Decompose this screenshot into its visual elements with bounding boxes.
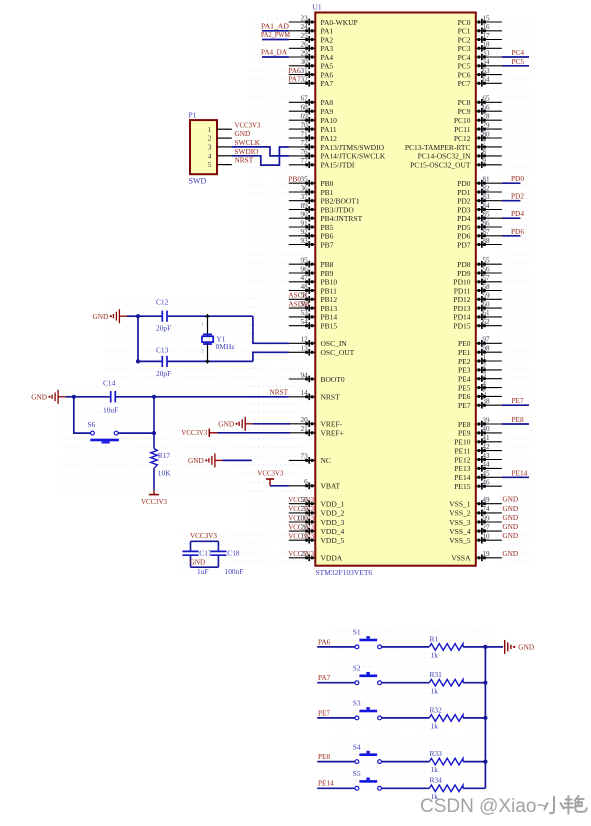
- U1 pin 85 (PD4) right: [457, 211, 502, 224]
- svg-text:VBAT: VBAT: [321, 482, 341, 491]
- svg-text:12: 12: [301, 336, 309, 344]
- svg-text:S4: S4: [353, 742, 361, 751]
- svg-text:100: 100: [297, 514, 308, 522]
- svg-text:5: 5: [208, 160, 212, 169]
- svg-text:PE10: PE10: [454, 438, 471, 447]
- wire GND bus vertical: [484, 647, 486, 788]
- svg-text:69: 69: [301, 113, 309, 121]
- svg-text:PE5: PE5: [458, 383, 471, 392]
- svg-text:PD10: PD10: [453, 278, 470, 287]
- U1 pin 60 (PD13) right: [453, 300, 501, 313]
- U1 pin 44 (PE13) right: [454, 461, 502, 474]
- svg-text:PA2: PA2: [321, 35, 334, 44]
- node label PD2: [511, 192, 524, 201]
- svg-text:PA6: PA6: [288, 66, 301, 75]
- U1 pin 30 (PA5) left: [289, 58, 334, 71]
- svg-text:33: 33: [482, 49, 490, 57]
- svg-text:PB5: PB5: [321, 223, 334, 232]
- U1 pin 28 (VDD_4) left: [289, 523, 345, 536]
- wire net PC5: [502, 65, 529, 67]
- svg-text:8: 8: [482, 148, 486, 156]
- svg-text:VSS_5: VSS_5: [449, 536, 471, 545]
- node label PA4_DA: [261, 48, 288, 57]
- svg-text:1k: 1k: [431, 651, 439, 660]
- node junction on GND bus: [483, 760, 487, 764]
- svg-text:13: 13: [301, 345, 309, 353]
- capacitor C17 1uF: [182, 549, 212, 576]
- svg-text:1k: 1k: [431, 722, 439, 731]
- svg-text:VSS_3: VSS_3: [449, 518, 471, 527]
- svg-text:PE4: PE4: [458, 375, 471, 384]
- svg-text:21: 21: [301, 425, 309, 433]
- svg-text:98: 98: [482, 345, 490, 353]
- node junction on GND bus: [483, 645, 487, 649]
- svg-text:2: 2: [208, 134, 212, 143]
- svg-text:64: 64: [482, 76, 490, 84]
- svg-text:PE7: PE7: [512, 396, 525, 405]
- U1 pin 90 (PB4/JNTRST) left: [289, 211, 363, 224]
- svg-text:GND: GND: [218, 419, 234, 428]
- resistor R32 1k: [429, 705, 463, 730]
- switch S2: [353, 664, 382, 685]
- svg-text:R1: R1: [430, 634, 439, 643]
- U1 pin 4 (PE5) right: [458, 380, 502, 393]
- U1 pin 50 (VDD_1) left: [289, 496, 345, 509]
- svg-text:10uF: 10uF: [103, 405, 118, 414]
- svg-text:PC13-TAMPER-RTC: PC13-TAMPER-RTC: [405, 143, 471, 152]
- svg-text:GND: GND: [93, 312, 109, 321]
- wire net PD0: [502, 182, 521, 184]
- svg-text:VCC3V3: VCC3V3: [257, 468, 283, 477]
- svg-text:U1: U1: [313, 3, 322, 12]
- U1 pin 70 (PA11) left: [289, 121, 337, 133]
- svg-text:PD13: PD13: [453, 304, 470, 313]
- svg-text:PA1_AD: PA1_AD: [261, 22, 289, 31]
- U1 pin 17 (PC2) right: [458, 32, 502, 45]
- wire S6 left branch: [74, 397, 91, 433]
- switch S6: [88, 420, 119, 443]
- power VCC3V3 (VREF+): [181, 428, 290, 437]
- connector P1 pin 5 (NRST): [208, 156, 254, 170]
- U1 pin 65 (PC8) right: [458, 95, 502, 108]
- svg-text:C12: C12: [156, 298, 169, 307]
- U1 pin 52 (PB13) left: [288, 299, 337, 313]
- svg-text:86: 86: [482, 219, 490, 227]
- wire net PD4: [502, 217, 521, 219]
- svg-text:82: 82: [482, 184, 490, 192]
- svg-text:75: 75: [301, 505, 309, 513]
- U1 pin 95 (PB8) left: [289, 257, 334, 270]
- svg-text:GND: GND: [190, 558, 206, 567]
- svg-text:PB6: PB6: [321, 232, 334, 241]
- watermark glyph yan: [566, 799, 572, 801]
- U1 pin 68 (PA9) left: [289, 104, 334, 117]
- svg-text:VDD_3: VDD_3: [321, 518, 345, 527]
- svg-text:C14: C14: [103, 378, 116, 387]
- U1 pin 100 (VDD_3) left: [289, 514, 345, 527]
- U1 pin 91 (PB5) left: [289, 219, 334, 232]
- power net VCC3V3 at U1 pin 75: [288, 504, 314, 513]
- U1 pin 99 (VSS_3) right: [449, 514, 502, 527]
- svg-text:PA11: PA11: [321, 125, 337, 134]
- svg-text:VSSA: VSSA: [451, 554, 471, 563]
- svg-text:PA2_PWM: PA2_PWM: [261, 30, 290, 39]
- svg-text:PE9: PE9: [458, 429, 471, 438]
- svg-text:PB4/JNTRST: PB4/JNTRST: [321, 214, 363, 223]
- power net VCC3V3 at U1 pin 11: [288, 532, 314, 541]
- svg-text:49: 49: [482, 496, 490, 504]
- svg-text:3: 3: [208, 143, 212, 152]
- wire PE8 to S4: [317, 761, 355, 763]
- U1 pin 56 (PD9) right: [457, 265, 502, 278]
- ground GND (key array): [485, 640, 534, 654]
- U1 pin 67 (PA8) left: [289, 95, 334, 108]
- svg-text:S6: S6: [88, 420, 96, 429]
- svg-text:31: 31: [301, 67, 309, 75]
- svg-text:87: 87: [482, 228, 490, 236]
- svg-text:40: 40: [482, 425, 490, 433]
- svg-text:PD0: PD0: [457, 179, 471, 188]
- svg-text:PA4_DA: PA4_DA: [261, 48, 288, 57]
- svg-text:PA6: PA6: [321, 70, 334, 79]
- svg-text:52: 52: [301, 300, 309, 308]
- svg-text:PA0-WKUP: PA0-WKUP: [321, 18, 358, 27]
- svg-text:R17: R17: [158, 451, 171, 460]
- U1 pin 1 (PE2) right: [458, 353, 502, 366]
- svg-text:NC: NC: [321, 456, 331, 465]
- svg-text:84: 84: [482, 202, 490, 210]
- svg-text:PC3: PC3: [458, 44, 471, 53]
- wire OSC top rail: [138, 315, 253, 317]
- node label PD6: [511, 227, 524, 236]
- U1 pin 64 (PC7) right: [458, 76, 502, 89]
- svg-text:PC8: PC8: [458, 98, 471, 107]
- svg-text:PB12: PB12: [321, 295, 338, 304]
- svg-text:PA6: PA6: [318, 637, 331, 646]
- svg-text:30: 30: [301, 58, 309, 66]
- node label PA2_PWM: [261, 30, 290, 39]
- svg-text:PC2: PC2: [458, 35, 471, 44]
- svg-text:PB2/BOOT1: PB2/BOOT1: [321, 197, 360, 206]
- svg-text:PD12: PD12: [453, 295, 470, 304]
- svg-text:PD15: PD15: [453, 322, 470, 331]
- crystal Y1 8MHz: [201, 316, 235, 361]
- svg-text:PE14: PE14: [318, 779, 334, 788]
- wire net PC4: [502, 56, 529, 58]
- svg-text:PB15: PB15: [321, 322, 338, 331]
- svg-text:S2: S2: [353, 664, 361, 673]
- svg-text:VSS_4: VSS_4: [449, 527, 471, 536]
- U1 pin 20 (VREF-) left: [289, 416, 343, 429]
- svg-text:1: 1: [482, 353, 486, 361]
- svg-text:PB0: PB0: [288, 175, 301, 184]
- svg-text:NRST: NRST: [269, 388, 288, 397]
- U1 pin 39 (PE8) right: [458, 416, 502, 429]
- U1 pin 40 (PE9) right: [458, 425, 502, 438]
- U1 pin 97 (PE0) right: [458, 336, 502, 349]
- U1 pin 93 (PB7) left: [289, 237, 334, 250]
- U1 pin 10 (VSS_5) right: [449, 533, 502, 546]
- resistor R17 10K: [151, 449, 171, 478]
- wire PA6 to S1: [317, 646, 355, 648]
- U1 pin 25 (PA2) left: [289, 32, 334, 45]
- wire PE7 to S3: [317, 717, 355, 719]
- U1 pin 81 (PD0) right: [457, 176, 502, 189]
- U1 pin 3 (PE4) right: [458, 371, 502, 384]
- wire C17/C18 top rail: [191, 541, 219, 551]
- svg-text:99: 99: [482, 514, 490, 522]
- U1 pin 23 (PA0-WKUP) left: [289, 14, 358, 27]
- resistor R33 1k: [429, 749, 463, 774]
- svg-text:PE6: PE6: [458, 392, 471, 401]
- svg-text:OSC_IN: OSC_IN: [321, 339, 348, 348]
- U1 pin 80 (PC12) right: [454, 130, 502, 143]
- wire R1 to bus: [463, 646, 485, 648]
- svg-text:PB11: PB11: [321, 286, 338, 295]
- svg-text:PE14: PE14: [512, 468, 528, 477]
- svg-text:SWDIO: SWDIO: [235, 147, 259, 156]
- watermark text: [420, 796, 587, 817]
- svg-text:20: 20: [301, 416, 309, 424]
- ground GND (crystal circuit): [93, 309, 139, 323]
- svg-text:VREF-: VREF-: [321, 420, 343, 429]
- svg-text:20pF: 20pF: [156, 369, 171, 378]
- svg-text:1k: 1k: [431, 686, 439, 695]
- node junction Y1 bottom: [205, 360, 210, 364]
- U1 pin 69 (PA10) left: [289, 113, 337, 126]
- svg-text:92: 92: [301, 228, 309, 236]
- svg-text:GND: GND: [502, 504, 518, 513]
- svg-text:73: 73: [301, 453, 309, 461]
- svg-text:C18: C18: [227, 549, 240, 558]
- capacitor C18 100nF: [210, 549, 243, 576]
- svg-text:11: 11: [301, 533, 308, 541]
- power net VCC3V3 at U1 pin 50: [288, 495, 314, 504]
- U1 pin 12 (OSC_IN) left: [289, 336, 348, 349]
- node junction NRST right: [152, 395, 156, 399]
- wire PE14 to S5: [317, 787, 355, 789]
- svg-text:32: 32: [301, 76, 309, 84]
- svg-text:PA7: PA7: [321, 79, 334, 88]
- svg-text:PB14: PB14: [321, 313, 338, 322]
- svg-text:GND: GND: [502, 531, 518, 540]
- svg-text:62: 62: [482, 318, 490, 326]
- svg-text:PD4: PD4: [511, 209, 524, 218]
- resistor R31 1k: [429, 670, 463, 695]
- U1 pin 88 (PD7) right: [457, 237, 502, 250]
- wire OSC_OUT to pin 13: [253, 352, 289, 361]
- wire net PD6: [502, 235, 521, 237]
- svg-text:PD0: PD0: [511, 174, 524, 183]
- svg-text:36: 36: [301, 184, 309, 192]
- svg-text:GND: GND: [502, 513, 518, 522]
- svg-text:PE8: PE8: [458, 420, 471, 429]
- U1 pin 72 (PA13/JTMS/SWDIO) left: [289, 139, 385, 152]
- svg-text:50: 50: [301, 496, 309, 504]
- wire left vertical (C12-C13): [136, 316, 140, 363]
- svg-text:PB8: PB8: [321, 260, 334, 269]
- U1 pin 89 (PB3/JTDO) left: [289, 202, 355, 215]
- wire S2 to R31: [382, 682, 430, 684]
- node label PE7: [512, 396, 525, 405]
- svg-text:100nF: 100nF: [225, 567, 244, 576]
- svg-text:VDD_5: VDD_5: [321, 536, 345, 545]
- svg-text:R32: R32: [430, 705, 443, 714]
- svg-text:59: 59: [482, 292, 490, 300]
- power net GND (C17/C18): [190, 558, 206, 567]
- wire net PA1_AD: [262, 30, 289, 32]
- wire S3 to R32: [382, 717, 430, 719]
- node junction on GND bus: [483, 716, 487, 720]
- svg-text:GND: GND: [235, 129, 251, 138]
- svg-text:R31: R31: [430, 670, 443, 679]
- svg-text:PA7: PA7: [318, 673, 331, 682]
- wire S6 right branch: [118, 397, 156, 449]
- svg-text:VDDA: VDDA: [321, 554, 343, 563]
- svg-text:BOOT0: BOOT0: [321, 375, 345, 384]
- wire net PA4_DA: [262, 56, 289, 58]
- svg-text:43: 43: [482, 452, 490, 460]
- svg-text:NRST: NRST: [235, 156, 254, 165]
- power VCC3V3 (below R17): [141, 490, 167, 506]
- U1 pin 2 (PE3) right: [458, 362, 502, 375]
- svg-text:C17: C17: [199, 549, 212, 558]
- svg-text:PC7: PC7: [458, 79, 471, 88]
- node label PD0: [511, 174, 524, 183]
- svg-text:PC4: PC4: [512, 48, 525, 57]
- U1 pin 54 (PB15) left: [289, 318, 338, 331]
- capacitor C12: [156, 298, 171, 333]
- power net GND at U1 pin 10: [502, 531, 518, 540]
- U1 pin 86 (PD5) right: [457, 219, 502, 232]
- U1 pin 82 (PD1) right: [457, 184, 502, 197]
- svg-text:4: 4: [482, 380, 486, 388]
- svg-text:GND: GND: [502, 549, 518, 558]
- svg-text:PB0: PB0: [321, 179, 334, 188]
- power net GND at U1 pin 74: [502, 504, 518, 513]
- svg-text:42: 42: [482, 443, 490, 451]
- svg-text:PE7: PE7: [318, 708, 331, 717]
- svg-text:PD11: PD11: [454, 286, 471, 295]
- svg-text:76: 76: [301, 148, 309, 156]
- svg-text:47: 47: [301, 274, 309, 282]
- svg-text:SWCLK: SWCLK: [235, 138, 261, 147]
- svg-text:46: 46: [482, 479, 490, 487]
- node junction top-left: [136, 314, 140, 318]
- svg-text:PC4: PC4: [458, 53, 471, 62]
- U1 pin 96 (PB9) left: [289, 265, 334, 278]
- svg-text:CSDN @Xiao~: CSDN @Xiao~: [420, 796, 548, 817]
- svg-text:PE14: PE14: [454, 473, 471, 482]
- U1 pin 6 (VBAT) left: [289, 478, 341, 491]
- svg-text:PA7: PA7: [288, 75, 301, 84]
- wire OSC_IN to pin 12: [253, 316, 289, 343]
- node label NRST: [269, 388, 288, 397]
- wire SWCLK: P1.3 to U1 PA14: [232, 147, 289, 156]
- svg-text:45: 45: [482, 470, 490, 478]
- power net VCC3V3 (C17/C18): [190, 531, 217, 540]
- wire net PD2: [502, 200, 521, 202]
- svg-text:PA8: PA8: [321, 98, 334, 107]
- svg-text:57: 57: [482, 274, 490, 282]
- U1 pin 31 (PA6) left: [288, 66, 333, 80]
- svg-text:39: 39: [482, 416, 490, 424]
- svg-text:56: 56: [482, 265, 490, 273]
- connector P1 pin 4 (SWDIO): [208, 147, 259, 161]
- connector P1 pin 2 (GND): [208, 129, 251, 143]
- U1 pin 42 (PE11) right: [455, 443, 502, 456]
- svg-text:4: 4: [208, 151, 212, 160]
- wire NRST net: [74, 396, 289, 398]
- svg-text:GND: GND: [188, 456, 204, 465]
- U1 pin 29 (PA4) left: [289, 49, 334, 62]
- node label PE7 (key row): [318, 708, 331, 717]
- U1 pin 57 (PD10) right: [453, 274, 501, 287]
- wire R33 to bus: [463, 761, 485, 763]
- svg-text:27: 27: [482, 523, 490, 531]
- U1 pin 27 (VSS_4) right: [449, 523, 502, 536]
- svg-text:PD2: PD2: [511, 192, 524, 201]
- svg-text:GND: GND: [518, 643, 534, 652]
- svg-text:63: 63: [482, 67, 490, 75]
- svg-text:PD3: PD3: [457, 205, 471, 214]
- svg-text:37: 37: [301, 193, 309, 201]
- svg-text:44: 44: [482, 461, 490, 469]
- U1 pin 45 (PE14) right: [454, 470, 502, 483]
- svg-text:PA14/JTCK/SWCLK: PA14/JTCK/SWCLK: [321, 152, 386, 161]
- svg-text:VCC3V3: VCC3V3: [190, 531, 217, 540]
- U1 pin 19 (VSSA) right: [451, 550, 502, 563]
- U1 pin 9 (PC15-OSC32_OUT) right: [410, 157, 502, 170]
- U1 pin 13 (OSC_OUT) left: [289, 345, 355, 358]
- svg-text:83: 83: [482, 193, 490, 201]
- U1 pin 66 (PC9) right: [458, 104, 502, 117]
- svg-text:88: 88: [482, 237, 490, 245]
- svg-text:PE8: PE8: [512, 415, 525, 424]
- svg-text:81: 81: [482, 176, 490, 184]
- U1 pin 14 (NRST) left: [289, 389, 340, 402]
- svg-text:PB13: PB13: [321, 304, 338, 313]
- svg-text:22: 22: [301, 550, 309, 558]
- svg-text:PD7: PD7: [457, 240, 471, 249]
- svg-text:26: 26: [301, 41, 309, 49]
- svg-text:PA13/JTMS/SWDIO: PA13/JTMS/SWDIO: [321, 143, 385, 152]
- U1 pin 32 (PA7) left: [288, 75, 333, 89]
- U1 pin 92 (PB6) left: [289, 228, 334, 241]
- svg-text:25: 25: [301, 32, 309, 40]
- svg-text:PE11: PE11: [455, 446, 471, 455]
- IC U1 STM32F103VET6 body: [313, 3, 476, 578]
- svg-text:PA9: PA9: [321, 107, 334, 116]
- svg-text:PB1: PB1: [321, 188, 334, 197]
- wire PA7 to S2: [317, 682, 355, 684]
- svg-text:96: 96: [301, 265, 309, 273]
- svg-text:PC15-OSC32_OUT: PC15-OSC32_OUT: [410, 161, 471, 170]
- node junction Y1 top: [205, 314, 210, 318]
- svg-text:7: 7: [482, 139, 486, 147]
- U1 pin 47 (PB10) left: [289, 274, 338, 287]
- node label PE8: [512, 415, 525, 424]
- svg-text:PC14-OSC32_IN: PC14-OSC32_IN: [418, 152, 472, 161]
- svg-text:15: 15: [482, 14, 490, 22]
- svg-text:PC6: PC6: [458, 70, 471, 79]
- connector P1 (SWD header): [189, 111, 218, 186]
- svg-text:GND: GND: [502, 495, 518, 504]
- U1 pin 16 (PC1) right: [458, 23, 502, 35]
- svg-text:VCC3V3: VCC3V3: [235, 120, 261, 129]
- svg-text:38: 38: [482, 398, 490, 406]
- svg-text:PE7: PE7: [458, 401, 471, 410]
